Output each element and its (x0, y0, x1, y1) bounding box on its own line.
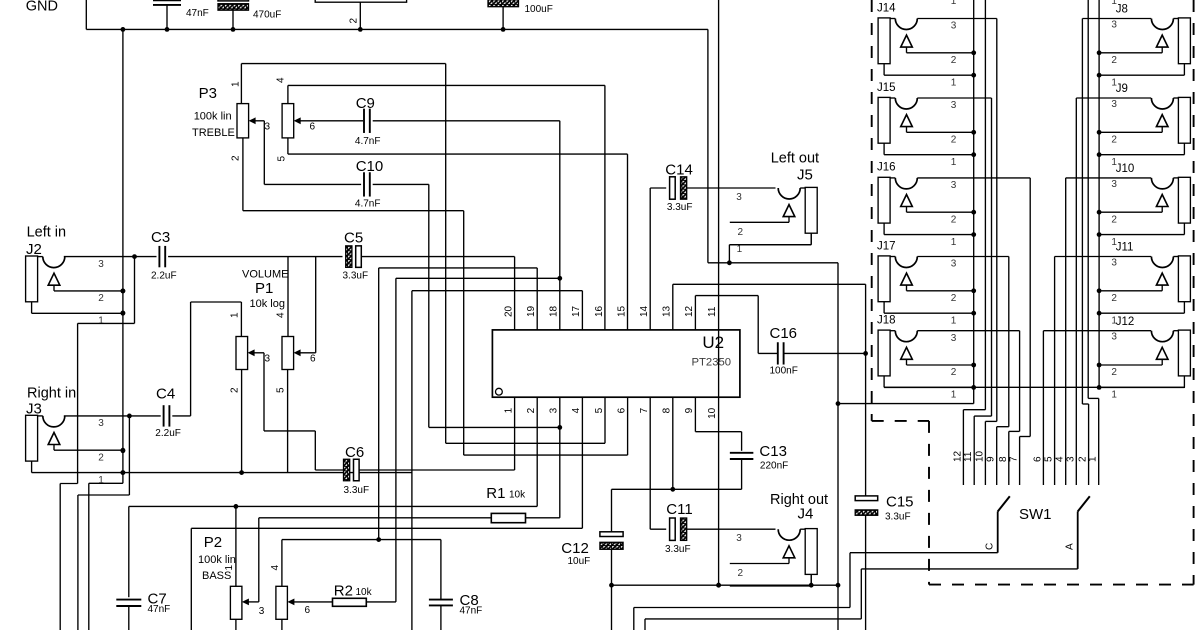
svg-text:TREBLE: TREBLE (192, 127, 235, 139)
svg-text:2: 2 (951, 293, 957, 304)
svg-text:2: 2 (349, 18, 360, 24)
svg-text:3: 3 (1111, 332, 1117, 343)
svg-text:3: 3 (549, 407, 560, 413)
svg-text:J11: J11 (1116, 242, 1134, 254)
svg-text:2: 2 (1111, 55, 1117, 66)
svg-text:47nF: 47nF (460, 606, 483, 617)
svg-text:3.3uF: 3.3uF (343, 271, 369, 282)
svg-text:10: 10 (974, 450, 985, 462)
svg-text:1: 1 (951, 390, 957, 401)
svg-text:3: 3 (1111, 179, 1117, 190)
svg-text:1: 1 (1088, 456, 1099, 462)
svg-text:R2: R2 (334, 582, 353, 599)
svg-text:J16: J16 (877, 162, 896, 174)
svg-text:20: 20 (503, 305, 514, 317)
svg-text:J14: J14 (877, 2, 896, 14)
svg-text:3.3uF: 3.3uF (665, 544, 691, 555)
svg-text:C16: C16 (770, 325, 798, 342)
svg-text:5: 5 (276, 387, 287, 393)
svg-text:3.3uF: 3.3uF (667, 202, 693, 213)
svg-text:100k lin: 100k lin (198, 554, 236, 566)
svg-text:1: 1 (951, 157, 957, 168)
svg-text:8: 8 (998, 456, 1009, 462)
svg-text:J18: J18 (877, 315, 896, 327)
svg-text:5: 5 (594, 407, 605, 413)
svg-text:2: 2 (738, 568, 744, 579)
svg-text:100k lin: 100k lin (194, 111, 232, 123)
svg-text:3: 3 (951, 259, 957, 270)
svg-text:47nF: 47nF (186, 8, 209, 19)
svg-text:J9: J9 (1116, 83, 1128, 95)
svg-text:11: 11 (707, 306, 718, 317)
svg-text:J4: J4 (798, 506, 814, 523)
svg-text:C13: C13 (759, 443, 787, 460)
svg-text:2: 2 (1111, 293, 1117, 304)
svg-text:5: 5 (1044, 456, 1055, 462)
svg-text:2: 2 (951, 214, 957, 225)
svg-text:J10: J10 (1116, 163, 1135, 175)
svg-text:3.3uF: 3.3uF (885, 512, 911, 523)
svg-text:1: 1 (230, 312, 241, 318)
svg-text:J17: J17 (877, 240, 896, 252)
svg-text:16: 16 (594, 305, 605, 317)
svg-text:6: 6 (305, 605, 311, 616)
svg-text:3: 3 (1111, 258, 1117, 269)
svg-text:100nF: 100nF (770, 366, 798, 377)
svg-text:2: 2 (231, 155, 242, 161)
svg-text:1: 1 (951, 77, 957, 88)
svg-text:1: 1 (1111, 390, 1117, 401)
svg-text:10: 10 (707, 407, 718, 419)
svg-text:GND: GND (26, 0, 58, 15)
svg-text:3: 3 (265, 354, 271, 365)
svg-text:3: 3 (951, 333, 957, 344)
svg-text:100uF: 100uF (525, 4, 553, 15)
svg-text:3: 3 (1111, 99, 1117, 110)
svg-text:10k: 10k (356, 587, 373, 598)
svg-text:1: 1 (951, 0, 957, 7)
svg-text:4.7nF: 4.7nF (355, 199, 381, 210)
svg-text:C10: C10 (356, 158, 384, 175)
svg-text:3.3uF: 3.3uF (344, 485, 370, 496)
svg-text:R1: R1 (486, 485, 505, 502)
svg-text:3: 3 (951, 180, 957, 191)
svg-text:1: 1 (231, 81, 242, 87)
svg-text:2: 2 (1111, 135, 1117, 146)
svg-text:11: 11 (963, 451, 974, 462)
svg-text:J15: J15 (877, 82, 896, 94)
svg-text:C3: C3 (151, 229, 170, 246)
svg-text:14: 14 (639, 305, 650, 317)
svg-text:Left in: Left in (27, 224, 67, 240)
svg-text:4: 4 (276, 312, 287, 318)
svg-text:3: 3 (951, 21, 957, 32)
svg-text:10uF: 10uF (568, 556, 591, 567)
svg-text:6: 6 (1032, 456, 1043, 462)
svg-text:C11: C11 (666, 501, 692, 518)
svg-text:470uF: 470uF (253, 10, 281, 21)
svg-text:C14: C14 (665, 161, 693, 178)
svg-text:3: 3 (736, 192, 742, 203)
svg-text:P3: P3 (199, 85, 217, 102)
svg-text:2: 2 (951, 55, 957, 66)
svg-text:7: 7 (1009, 456, 1020, 462)
svg-text:1: 1 (503, 407, 514, 413)
svg-text:J12: J12 (1116, 316, 1135, 328)
svg-text:3: 3 (98, 259, 104, 270)
svg-text:2: 2 (230, 387, 241, 393)
svg-text:6: 6 (310, 122, 316, 133)
svg-text:P1: P1 (255, 280, 273, 297)
svg-text:47nF: 47nF (148, 604, 171, 615)
svg-text:17: 17 (571, 305, 582, 317)
svg-text:C9: C9 (356, 95, 375, 112)
svg-text:3: 3 (265, 122, 271, 133)
svg-text:4: 4 (571, 407, 582, 413)
svg-text:4: 4 (1055, 456, 1066, 462)
svg-text:3: 3 (259, 606, 265, 617)
svg-text:2: 2 (98, 452, 104, 463)
svg-text:C4: C4 (156, 386, 175, 403)
svg-text:2.2uF: 2.2uF (155, 428, 181, 439)
svg-text:2: 2 (98, 293, 104, 304)
svg-text:C6: C6 (345, 444, 364, 461)
svg-text:13: 13 (662, 305, 673, 317)
svg-text:U2: U2 (702, 333, 724, 352)
svg-text:1: 1 (98, 475, 104, 486)
svg-text:J5: J5 (797, 166, 813, 183)
svg-text:19: 19 (526, 305, 537, 317)
svg-text:1: 1 (224, 565, 235, 571)
svg-text:18: 18 (549, 305, 560, 317)
svg-text:C15: C15 (886, 493, 914, 510)
svg-text:1: 1 (98, 316, 104, 327)
svg-text:1: 1 (951, 315, 957, 326)
svg-text:3: 3 (736, 533, 742, 544)
svg-text:SW1: SW1 (1019, 506, 1052, 523)
svg-text:12: 12 (952, 450, 963, 462)
svg-text:3: 3 (951, 100, 957, 111)
svg-text:A: A (1065, 543, 1076, 550)
svg-text:VOLUME: VOLUME (242, 269, 288, 281)
svg-text:4: 4 (276, 77, 287, 83)
svg-text:3: 3 (1111, 20, 1117, 31)
svg-text:2: 2 (951, 135, 957, 146)
svg-text:5: 5 (277, 156, 288, 162)
svg-text:BASS: BASS (202, 570, 231, 582)
svg-text:2: 2 (951, 367, 957, 378)
svg-text:2: 2 (1111, 214, 1117, 225)
svg-text:2: 2 (1111, 367, 1117, 378)
svg-text:P2: P2 (204, 534, 222, 551)
svg-text:C12: C12 (561, 540, 589, 557)
svg-text:4: 4 (270, 565, 281, 571)
svg-text:3: 3 (1065, 456, 1076, 462)
svg-text:10k: 10k (509, 490, 526, 501)
svg-text:2: 2 (738, 227, 744, 238)
svg-text:4.7nF: 4.7nF (355, 136, 381, 147)
svg-text:8: 8 (662, 407, 673, 413)
svg-text:9: 9 (986, 456, 997, 462)
svg-text:Left out: Left out (771, 151, 819, 167)
svg-text:12: 12 (684, 305, 695, 317)
svg-text:6: 6 (616, 407, 627, 413)
svg-text:Right in: Right in (27, 385, 76, 401)
svg-text:PT2350: PT2350 (692, 357, 732, 369)
svg-text:9: 9 (684, 407, 695, 413)
svg-text:2.2uF: 2.2uF (151, 270, 177, 281)
svg-text:10k log: 10k log (250, 298, 285, 310)
svg-text:J8: J8 (1116, 4, 1128, 16)
svg-text:3: 3 (98, 418, 104, 429)
svg-text:6: 6 (310, 354, 316, 365)
svg-text:2: 2 (526, 407, 537, 413)
svg-text:15: 15 (616, 305, 627, 317)
svg-text:1: 1 (737, 244, 743, 255)
svg-text:1: 1 (951, 237, 957, 248)
svg-text:C5: C5 (344, 229, 363, 246)
svg-text:7: 7 (639, 407, 650, 413)
svg-text:220nF: 220nF (760, 460, 788, 471)
svg-text:C: C (985, 543, 996, 550)
